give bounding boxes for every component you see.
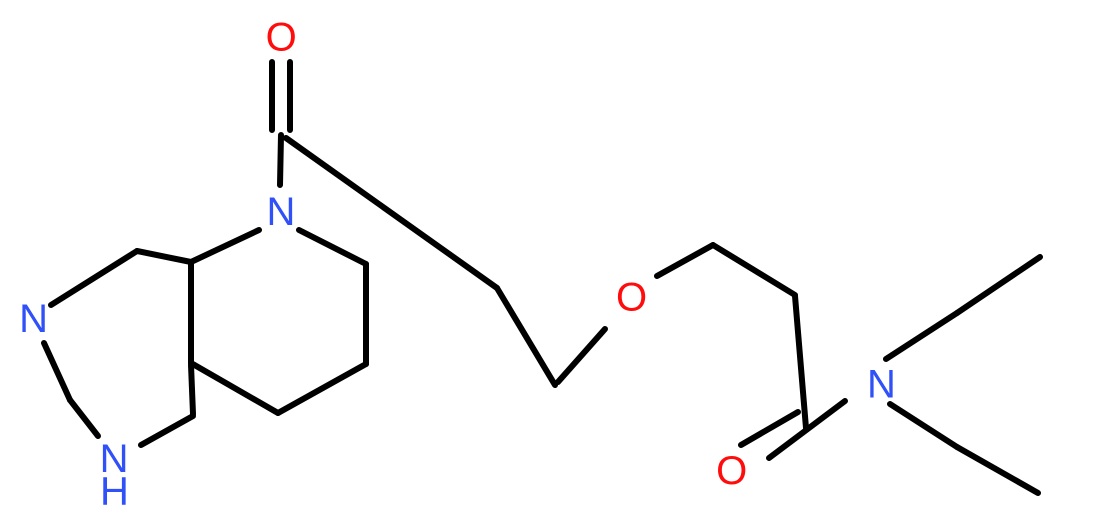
svg-text:O: O <box>716 449 747 493</box>
bond C3a-B <box>191 365 193 414</box>
bond Y-O2 <box>558 329 605 382</box>
bond N4-Et2a <box>890 404 957 447</box>
bond Et1a-Et1b <box>957 257 1040 313</box>
bond X-Y <box>497 288 555 385</box>
bond N1-A <box>191 230 259 262</box>
svg-text:N: N <box>267 190 296 234</box>
bond V7a-A <box>137 251 191 262</box>
bond C0-N1 <box>280 135 281 185</box>
svg-text:N: N <box>867 363 896 407</box>
bond N4-Et1a <box>886 313 957 359</box>
long diagonal C0-X <box>286 138 497 288</box>
bond W-C8 <box>795 296 806 428</box>
bond E-D vertical <box>363 264 369 364</box>
svg-text:N: N <box>19 297 48 341</box>
bond Et2a-Et2b <box>957 447 1038 493</box>
bond O2-Z <box>657 245 713 276</box>
bond A-B vertical <box>188 262 194 363</box>
svg-text:H: H <box>100 469 129 513</box>
bond N1-E <box>299 230 366 264</box>
svg-text:O: O <box>616 276 647 320</box>
C8=O3 double bond and C8-N4 bond (collinear) <box>741 401 845 458</box>
bond Z-W <box>713 245 795 295</box>
bond NH-C3a <box>141 416 193 445</box>
bond C2-NH <box>70 400 98 436</box>
bond D-C <box>278 364 366 413</box>
bond N2-C2 <box>44 343 70 400</box>
bond B-C <box>191 363 278 413</box>
svg-text:O: O <box>266 16 297 60</box>
carbonyl C=O double bond top-left <box>272 62 290 130</box>
bond N2-V7a <box>51 251 137 305</box>
